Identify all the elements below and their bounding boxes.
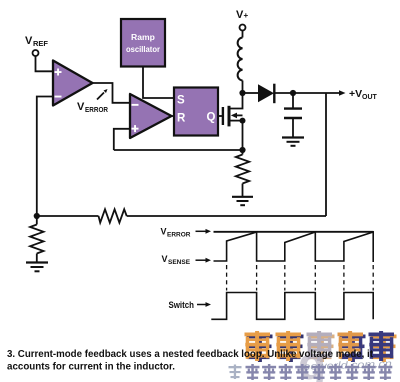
dashed timing lines	[227, 265, 374, 291]
svg-text:3. Current-mode feedback uses: 3. Current-mode feedback uses a nested f…	[7, 349, 374, 360]
node VERROR label with arrow	[77, 89, 108, 114]
svg-text:+: +	[244, 11, 249, 20]
svg-text:accounts for current in the in: accounts for current in the inductor.	[7, 361, 175, 372]
resistor R3 current sense (vertical)	[236, 150, 249, 196]
ground divider	[26, 263, 48, 272]
latch U3 SR	[174, 88, 218, 136]
svg-text:ERROR: ERROR	[167, 232, 191, 239]
terminal VREF	[25, 35, 48, 56]
svg-text:R: R	[177, 113, 186, 125]
wire sense node to comparator (horizontal)	[114, 149, 243, 151]
node C divider junction	[34, 213, 40, 219]
ground sense resistor	[232, 197, 253, 205]
svg-text:S: S	[177, 95, 185, 107]
node D sense junction	[239, 147, 245, 153]
svg-text:REF: REF	[33, 39, 48, 48]
resistor R2 divider bottom (vertical)	[30, 216, 43, 262]
svg-text:Switch: Switch	[169, 300, 195, 310]
wire VREF to error amp + input	[36, 56, 54, 71]
wire bottom feedback horizontal right part	[127, 215, 326, 217]
svg-text:V: V	[77, 101, 85, 113]
svg-text:+V: +V	[349, 88, 362, 100]
svg-text:Ramp: Ramp	[131, 32, 155, 42]
wire ramp oscillator to latch S input	[143, 67, 174, 99]
wire error amp output to comparator - input	[93, 83, 131, 103]
svg-text:SENSE: SENSE	[168, 259, 191, 266]
waveform label VERROR	[161, 227, 212, 239]
wire V+ to inductor	[242, 31, 244, 38]
waveform label Switch	[169, 300, 212, 310]
wire inductor to node A	[242, 81, 244, 94]
transistor Q1 MOSFET	[223, 93, 246, 150]
resistor R1 feedback (horizontal)	[99, 209, 127, 222]
wire comparator output to latch R input	[172, 115, 175, 117]
svg-text:OUT: OUT	[362, 94, 378, 101]
svg-text:ERROR: ERROR	[85, 105, 108, 114]
node B junction diode cap output	[290, 90, 296, 96]
wire resistor R1 to node C	[37, 215, 99, 217]
op-amp U4 current comparator	[130, 94, 172, 138]
op-amp U1 error amplifier	[53, 61, 93, 106]
watermark second row	[229, 364, 393, 380]
capacitor C1	[284, 93, 302, 137]
waveform VERROR flat line	[214, 231, 374, 233]
wire node B to output arrow	[293, 90, 346, 96]
node A junction inductor drain diode	[239, 90, 245, 96]
svg-text:V: V	[25, 35, 33, 47]
svg-text:V: V	[161, 227, 167, 237]
wire divider node to error amp - input	[37, 97, 53, 217]
svg-text:Q: Q	[207, 112, 216, 124]
waveform Switch trace	[211, 293, 373, 320]
wire feedback from VOUT line down	[325, 93, 327, 216]
ramp oscillator U2	[121, 19, 165, 67]
svg-text:oscillator: oscillator	[126, 44, 161, 54]
svg-text:V: V	[162, 254, 168, 264]
terminal V+	[236, 9, 249, 31]
waveform label VSENSE	[162, 254, 212, 266]
node +VOUT label	[349, 88, 378, 101]
wire latch Q to MOSFET gate	[218, 115, 222, 117]
watermark big characters	[245, 331, 397, 362]
diode D1	[258, 84, 293, 104]
wire node A to diode	[243, 92, 259, 94]
inductor L1	[238, 38, 243, 81]
wire comparator + input to sense line	[114, 129, 130, 150]
waveform VSENSE trace	[214, 232, 374, 262]
ground output cap	[282, 138, 304, 146]
